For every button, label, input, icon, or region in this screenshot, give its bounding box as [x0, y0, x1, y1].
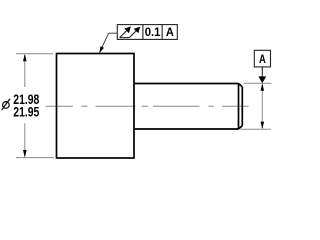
svg-text:0.1: 0.1 [145, 25, 161, 39]
left dimension line upper segment [24, 55, 26, 87]
right dimension line [261, 85, 263, 129]
chamfer top diagonal [239, 84, 243, 87]
centerline (axis) [46, 105, 249, 107]
datum box [254, 50, 270, 67]
left dimension arrow down [23, 150, 27, 158]
chamfer bottom diagonal [239, 126, 243, 129]
right dimension arrow up [261, 83, 265, 91]
left dimension line lower segment [24, 123, 26, 156]
svg-text:A: A [259, 52, 266, 66]
end face [241, 87, 243, 126]
right dimension extension line bottom [241, 128, 272, 130]
left dimension extension line bottom [16, 157, 54, 159]
svg-text:A: A [166, 25, 174, 39]
leader line to feature control frame [109, 32, 118, 34]
total runout symbol [120, 27, 141, 38]
large cylinder body outline [57, 54, 135, 159]
leader arrowhead [99, 46, 104, 53]
svg-text:21.95: 21.95 [13, 105, 39, 121]
datum stem [261, 67, 263, 77]
left dimension extension line top [16, 53, 53, 55]
datum feature triangle [258, 76, 266, 83]
feature control frame box [117, 25, 177, 40]
right dimension arrow down [261, 122, 265, 130]
diameter symbol [2, 99, 10, 110]
right dimension extension line top [244, 82, 272, 84]
small cylinder outline [134, 84, 242, 130]
chamfer edge line [238, 84, 240, 130]
left dimension arrow up [23, 54, 27, 62]
